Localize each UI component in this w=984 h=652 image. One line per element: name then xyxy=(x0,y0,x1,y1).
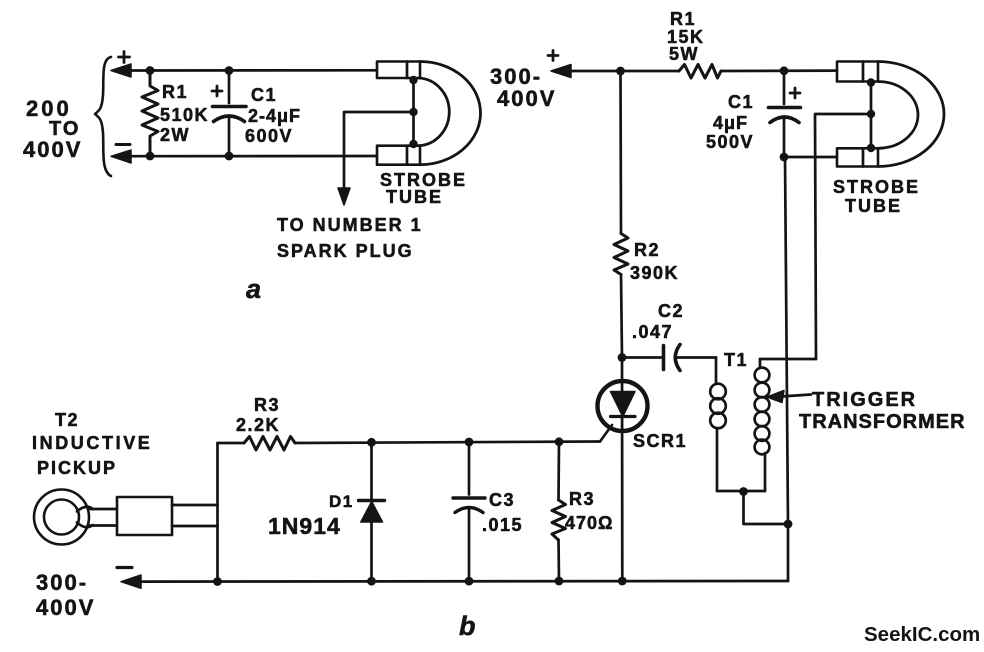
svg-text:TUBE: TUBE xyxy=(845,196,902,216)
svg-text:4μF: 4μF xyxy=(713,113,748,133)
svg-text:2-4μF: 2-4μF xyxy=(248,106,301,126)
junction R3(470) top xyxy=(555,437,564,446)
svg-text:400V: 400V xyxy=(36,595,95,620)
SCR1 cathode bar xyxy=(611,415,636,418)
minus terminal (a) xyxy=(116,143,130,146)
junction C1 bottom (b) xyxy=(780,153,789,162)
svg-text:390K: 390K xyxy=(630,263,679,283)
svg-text:R1: R1 xyxy=(670,9,696,29)
svg-text:.015: .015 xyxy=(482,515,523,535)
capacitor C3 xyxy=(453,442,485,581)
svg-text:2W: 2W xyxy=(160,125,190,145)
svg-text:a: a xyxy=(246,274,261,304)
junction R1 bottom (a) xyxy=(146,152,155,161)
wire T1 secondary top to trigger line xyxy=(760,358,816,361)
svg-text:500V: 500V xyxy=(706,132,754,152)
label STROBE TUBE (b) xyxy=(833,177,920,216)
svg-text:R3: R3 xyxy=(569,489,595,509)
trigger electrode wire (b) xyxy=(870,83,873,149)
T1 secondary top lead xyxy=(759,359,762,367)
label 300-400V (b bottom) xyxy=(36,570,95,620)
svg-text:R1: R1 xyxy=(162,82,188,102)
svg-text:SeekIC.com: SeekIC.com xyxy=(864,623,980,646)
label T2 INDUCTIVE PICKUP xyxy=(32,410,152,478)
wire T1 common down xyxy=(744,492,789,525)
junction R1 top (a) xyxy=(146,66,155,75)
junction T1 bottom xyxy=(739,487,748,496)
svg-text:b: b xyxy=(459,611,476,641)
plus polarity C1 (a) xyxy=(212,86,222,96)
arrow left bottom rail xyxy=(121,575,141,588)
transformer T1 xyxy=(710,358,816,529)
wire C1 bottom to tube (b) xyxy=(784,156,837,159)
arrow down to spark plug xyxy=(338,188,350,205)
junction C1 bottom (a) xyxy=(225,152,234,161)
junction bottom rail D1 xyxy=(367,577,376,586)
wire R2 branch upper xyxy=(619,71,622,234)
capacitor C1 (a) xyxy=(213,71,247,157)
svg-text:T1: T1 xyxy=(724,350,748,370)
resistor R3 2.2K xyxy=(244,437,295,451)
junction T1 common / C1b return xyxy=(784,520,793,529)
T2 wires to block xyxy=(90,508,117,511)
label R1 15K 5W xyxy=(667,9,705,64)
label TRIGGER TRANSFORMER xyxy=(799,389,966,433)
wire gate rail left segment xyxy=(218,442,245,445)
junction C1 top (a) xyxy=(225,66,234,75)
arrow left, top rail (a) xyxy=(111,64,131,77)
wire R2 to SCR anode xyxy=(621,275,622,358)
junction bottom rail R3(470) xyxy=(555,577,564,586)
label R3 2.2K xyxy=(236,395,280,435)
svg-text:C3: C3 xyxy=(489,490,515,510)
T1 primary top lead xyxy=(715,358,718,385)
svg-text:TUBE: TUBE xyxy=(386,187,443,207)
wire gate rail right segment xyxy=(295,442,600,444)
svg-text:2.2K: 2.2K xyxy=(236,415,280,435)
svg-text:INDUCTIVE: INDUCTIVE xyxy=(32,433,152,453)
T2 outer ring xyxy=(34,490,89,545)
capacitor C1 (b) xyxy=(769,71,801,157)
svg-text:PICKUP: PICKUP xyxy=(37,458,117,478)
junction C3 top xyxy=(465,438,474,447)
svg-text:TO NUMBER 1: TO NUMBER 1 xyxy=(277,215,423,235)
SCR1 gate lead xyxy=(600,425,612,442)
label R1 510K 2W xyxy=(160,82,209,145)
svg-text:C1: C1 xyxy=(728,92,754,112)
resistor R1 (b) xyxy=(679,65,721,79)
svg-text:600V: 600V xyxy=(245,126,293,146)
T2 lead curls xyxy=(77,507,93,512)
label STROBE TUBE (a) xyxy=(380,170,467,207)
strobe tube (b) body xyxy=(837,62,944,167)
resistor R3 470ohm xyxy=(552,442,566,581)
svg-text:C2: C2 xyxy=(658,301,684,321)
svg-text:TRIGGER: TRIGGER xyxy=(812,389,917,411)
svg-text:TRANSFORMER: TRANSFORMER xyxy=(799,411,966,433)
T1 primary winding xyxy=(710,384,726,400)
svg-text:T2: T2 xyxy=(55,410,79,430)
plus terminal (a) xyxy=(119,52,130,63)
SCR1 anode-cathode line xyxy=(621,358,624,582)
svg-text:SPARK PLUG: SPARK PLUG xyxy=(277,241,414,261)
T2 wires block to riser xyxy=(172,504,218,507)
junction bottom rail C3 xyxy=(465,577,474,586)
wire top rail (b) left of R1 xyxy=(568,70,679,73)
wire top rail (b) right of R1 xyxy=(721,69,837,72)
label C2 .047 xyxy=(632,301,684,342)
wire bottom rail up to T1 common xyxy=(787,524,790,581)
label C3 .015 xyxy=(482,490,523,535)
label C1 2-4uF 600V xyxy=(245,85,301,146)
label R3 470ohm xyxy=(565,489,613,533)
resistor R2 xyxy=(614,234,628,275)
T1 secondary bottom lead xyxy=(764,453,767,491)
svg-text:1N914: 1N914 xyxy=(268,513,341,539)
label 300-400V (b top) xyxy=(490,64,556,111)
wire bottom rail xyxy=(138,580,788,583)
inductive pickup T2 xyxy=(34,443,218,582)
plus terminal (b) xyxy=(548,51,558,61)
plus polarity C1 (b) xyxy=(790,88,800,98)
T2 inner ring xyxy=(44,500,79,535)
svg-text:5W: 5W xyxy=(669,44,699,64)
riser wire to gate rail xyxy=(216,443,219,582)
capacitor C2 xyxy=(622,345,716,371)
wire trigger to spark plug arrow xyxy=(344,112,414,192)
minus terminal bottom rail xyxy=(117,566,132,569)
label TO NUMBER 1 SPARK PLUG xyxy=(277,215,423,261)
svg-text:R3: R3 xyxy=(254,395,280,415)
junction D1 top xyxy=(367,438,376,447)
junction SCR anode / C2 xyxy=(618,353,627,362)
wire trigger (b) to T1 secondary xyxy=(815,114,871,359)
junction C1 top (b) xyxy=(780,66,789,75)
svg-text:400V: 400V xyxy=(23,137,82,162)
wire top rail (a) xyxy=(128,69,377,72)
SCR1 xyxy=(598,358,648,582)
voltage brace 200-400V xyxy=(95,57,111,176)
svg-text:R2: R2 xyxy=(634,240,660,260)
T1 primary bottom lead xyxy=(716,428,719,491)
junction bottom rail riser xyxy=(213,577,222,586)
svg-text:470Ω: 470Ω xyxy=(565,513,613,533)
strobe tube (a) body xyxy=(377,62,481,165)
SCR1 triangle xyxy=(611,392,636,417)
T1 bottom link wire xyxy=(717,490,765,493)
arrow left, bottom rail (a) xyxy=(111,150,131,163)
svg-text:STROBE: STROBE xyxy=(833,177,920,197)
label C1 4uF 500V xyxy=(706,92,754,152)
arrow left, top rail (b) xyxy=(551,65,571,78)
svg-text:300-: 300- xyxy=(36,570,88,595)
SCR1 body circle xyxy=(598,381,648,431)
junction R2 top xyxy=(616,67,625,76)
label 200 TO 400V (a) xyxy=(23,96,82,162)
wire C1 bottom down to T1 common xyxy=(785,157,788,524)
wire bottom rail (a) xyxy=(128,155,377,158)
svg-text:C1: C1 xyxy=(251,85,277,105)
diode D1 xyxy=(359,442,385,581)
T2 block xyxy=(117,497,172,535)
svg-text:D1: D1 xyxy=(329,492,354,511)
svg-text:510K: 510K xyxy=(160,105,209,125)
svg-text:.047: .047 xyxy=(632,322,673,342)
T1 secondary winding xyxy=(755,368,770,383)
trigger electrode wire (a) xyxy=(412,80,415,144)
svg-text:SCR1: SCR1 xyxy=(633,431,687,451)
label D1 1N914 xyxy=(268,492,354,539)
junction bottom rail SCR cathode xyxy=(618,577,627,586)
svg-text:400V: 400V xyxy=(497,86,556,111)
resistor R1 (a) xyxy=(142,71,158,157)
trigger transformer pointer arrow xyxy=(767,391,784,403)
label R2 390K xyxy=(630,240,679,283)
